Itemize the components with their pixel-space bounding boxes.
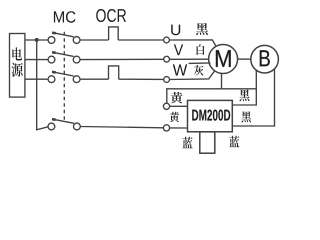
label 黑 black brake wire 2 xyxy=(241,111,251,122)
contactor MC pole 4 left terminal xyxy=(48,123,55,130)
OCR heater element on W xyxy=(109,66,119,79)
wire U: OCR to terminal xyxy=(118,39,163,41)
node junction dot on phase U xyxy=(35,38,39,42)
wire phase W from source to MC xyxy=(25,78,48,80)
terminal W xyxy=(164,77,170,83)
terminal yellow 1 xyxy=(163,103,169,109)
label 蓝 blue wire 1 xyxy=(182,137,192,149)
MC mechanical linkage (dashed) xyxy=(63,32,65,123)
contactor MC pole 2 left terminal xyxy=(48,56,55,63)
power source box 电源 xyxy=(10,34,25,98)
wire W: MC to OCR heater xyxy=(80,78,108,80)
brake rectifier DM200D box xyxy=(188,100,233,131)
terminal V xyxy=(164,56,170,62)
wire from motor bottom down xyxy=(221,73,223,89)
label 黑 black brake wire 1 xyxy=(239,89,249,101)
contactor MC pole 4 right terminal xyxy=(74,123,81,130)
label OCR xyxy=(96,9,126,22)
OCR heater element on U xyxy=(109,27,119,40)
label B (brake) xyxy=(260,50,270,66)
label U xyxy=(171,25,180,36)
contactor MC pole 3 right terminal xyxy=(73,76,80,83)
label 蓝 blue wire 2 xyxy=(229,136,239,147)
label W xyxy=(173,64,187,75)
label 黄 yellow wire 1 xyxy=(170,92,182,103)
wire tap from node down to 4th MC pole xyxy=(37,40,48,130)
wire yellow terminal 1 to rectifier input xyxy=(170,105,188,107)
label 电 (power) xyxy=(12,47,22,60)
wire W: OCR to terminal xyxy=(119,78,164,80)
label pointer line above 灰 xyxy=(189,62,211,65)
wire V lead (white) into motor xyxy=(170,58,209,60)
wire from MC pole 4 to yellow terminal 2 xyxy=(80,127,163,128)
contactor MC pole 2 right terminal xyxy=(73,56,80,63)
contactor MC pole 1 blade xyxy=(52,33,74,37)
contactor MC pole 1 right terminal xyxy=(73,37,80,44)
label M (motor) xyxy=(216,50,231,67)
label 白 white wire V xyxy=(197,44,205,55)
motor M circle xyxy=(209,45,238,74)
wire phase U from source to MC xyxy=(25,39,48,41)
contactor MC pole 4 blade xyxy=(52,119,74,123)
connector plug under rectifier xyxy=(200,132,215,153)
terminal yellow 2 xyxy=(163,125,169,131)
wire link M to B xyxy=(238,58,251,60)
wire yellow rail: up from terminal then right under motor xyxy=(167,89,256,103)
label DM200D xyxy=(192,110,230,121)
wire W lead (gray) into motor xyxy=(170,71,215,79)
contactor MC pole 3 left terminal xyxy=(48,76,55,83)
wire phase V from source to MC xyxy=(25,59,48,61)
label 黑 black wire U xyxy=(196,23,208,35)
wire V: MC to terminal xyxy=(80,58,164,60)
wire yellow terminal 2 to rectifier input xyxy=(170,127,188,129)
terminal U xyxy=(164,37,170,43)
label 黄 yellow wire 2 xyxy=(169,112,179,123)
contactor MC pole 3 blade xyxy=(52,72,74,76)
wire U: MC to OCR heater xyxy=(80,39,108,41)
contactor MC pole 2 blade xyxy=(52,52,74,56)
wire U lead (black) into motor xyxy=(169,40,216,47)
wire brake B left lead down to rectifier xyxy=(232,70,256,105)
label 灰 gray wire W xyxy=(194,65,203,75)
wire brake B right lead down to rectifier xyxy=(232,69,274,126)
label 源 (source) xyxy=(12,63,23,77)
label MC xyxy=(54,11,76,22)
contactor MC pole 1 left terminal xyxy=(48,37,55,44)
label V xyxy=(174,44,183,55)
brake B circle xyxy=(251,45,279,73)
